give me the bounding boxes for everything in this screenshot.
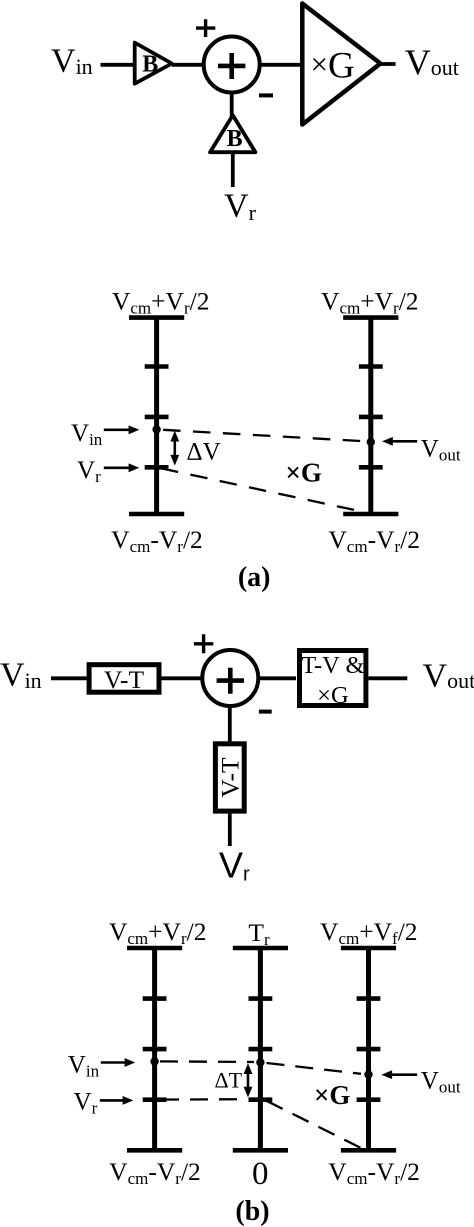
minus polarity mark <box>259 93 273 97</box>
svg-text:Vin: Vin <box>71 420 103 449</box>
svg-text:B: B <box>142 52 158 78</box>
input axis bottom cap <box>129 512 184 517</box>
buffer B2 <box>210 115 255 152</box>
node Vin dot <box>152 425 160 433</box>
svg-text:Vout: Vout <box>423 658 474 695</box>
b output axis tick 1 <box>357 996 381 1001</box>
svg-text:×G: ×G <box>317 682 349 709</box>
input axis tick 3 (Vr level) <box>145 465 169 470</box>
output axis top cap <box>343 315 398 320</box>
output axis tick 3 <box>359 465 383 470</box>
output axis tick 2 <box>359 415 383 420</box>
svg-text:Vcm-Vr/2: Vcm-Vr/2 <box>328 1157 420 1188</box>
b time axis tick 3 <box>249 1097 273 1102</box>
b time axis bottom cap <box>233 1148 288 1153</box>
svg-text:0: 0 <box>252 1156 269 1192</box>
b arrow Vr pointer <box>100 1096 134 1105</box>
b time axis tick 1 <box>249 996 273 1001</box>
svg-text:Vcm-Vr/2: Vcm-Vr/2 <box>109 1157 201 1188</box>
b output axis top cap <box>341 946 396 951</box>
wire summer to T-V box <box>258 676 296 680</box>
svg-text:Vout: Vout <box>421 1067 461 1096</box>
output axis tick 1 <box>359 364 383 369</box>
b time axis line <box>258 948 263 1150</box>
svg-text:ΔT: ΔT <box>215 1068 243 1093</box>
b input axis bottom cap <box>127 1148 182 1153</box>
b arrow Vout pointer <box>381 1070 417 1079</box>
output axis bottom cap <box>343 512 398 517</box>
b input axis tick 2 <box>143 1047 167 1052</box>
wire buffer B2 to Vr <box>231 152 235 187</box>
svg-text:B: B <box>227 126 243 152</box>
svg-text:Vcm+Vr/2: Vcm+Vr/2 <box>112 287 210 318</box>
svg-text:ΔV: ΔV <box>187 439 221 466</box>
summing junction U2 <box>202 650 258 706</box>
plus sign inside summer <box>218 53 245 79</box>
plus sign inside summer b <box>217 668 244 694</box>
converter box T-V and xG <box>300 651 366 710</box>
svg-text:Vr: Vr <box>219 845 250 886</box>
svg-text:Vin: Vin <box>0 657 42 694</box>
input axis tick 1 <box>145 364 169 369</box>
wire summer down to vertical V-T box <box>228 706 232 742</box>
svg-text:Vcm-Vr/2: Vcm-Vr/2 <box>111 525 203 556</box>
wire summer to amplifier <box>260 63 302 67</box>
svg-text:Vr: Vr <box>77 457 101 486</box>
arrow Vr pointer <box>104 463 140 472</box>
arrow Vin pointer <box>104 425 140 434</box>
b node Vout dot <box>364 1070 372 1078</box>
svg-text:Vin: Vin <box>68 1052 100 1081</box>
wire summer to buffer B2 <box>230 93 234 118</box>
svg-text:Vcm+Vr/2: Vcm+Vr/2 <box>109 917 207 948</box>
wire Vin to V-T box <box>51 676 88 680</box>
b time axis tick 2 <box>249 1047 273 1052</box>
b node T dot <box>256 1058 264 1066</box>
svg-text:V-T: V-T <box>104 665 145 694</box>
wire Vin to buffer B1 <box>101 63 137 67</box>
converter box V-T reference (vertical) <box>215 744 244 811</box>
converter box V-T input <box>89 665 159 694</box>
output axis line <box>368 318 373 514</box>
svg-text:Vin: Vin <box>51 43 93 80</box>
svg-text:Vout: Vout <box>421 436 461 465</box>
b time axis top cap <box>233 946 288 951</box>
dashed mapping line Vr to bottom <box>161 468 366 512</box>
amplifier xG <box>302 4 380 125</box>
node Vout dot <box>367 438 375 446</box>
svg-text:×G: ×G <box>314 1080 350 1110</box>
svg-text:Vcm-Vr/2: Vcm-Vr/2 <box>328 525 420 556</box>
plus polarity mark b <box>194 634 213 653</box>
arrow Vout pointer <box>382 437 417 446</box>
svg-text:Tr: Tr <box>248 918 270 949</box>
summing junction U1 <box>204 37 260 93</box>
b input axis tick 3 (Vr level) <box>143 1097 167 1102</box>
svg-text:Vr: Vr <box>74 1089 98 1118</box>
dashed mapping line Vin to Vout <box>163 430 365 442</box>
svg-text:Vout: Vout <box>405 42 459 82</box>
b arrow Vin pointer <box>101 1058 136 1067</box>
b dashed line T to Vout <box>267 1063 362 1074</box>
wire V-T box to summer <box>162 676 205 680</box>
wire amplifier to Vout <box>380 62 395 66</box>
b dashed line Vr to T tick <box>161 1098 246 1101</box>
wire T-V box to Vout <box>368 676 407 680</box>
b output axis tick 3 <box>357 1097 381 1102</box>
svg-text:(a): (a) <box>238 562 271 593</box>
svg-text:(b): (b) <box>235 1196 269 1227</box>
svg-text:V-T: V-T <box>215 757 244 798</box>
svg-text:T-V &: T-V & <box>301 652 364 679</box>
input axis line <box>154 318 159 514</box>
b input axis line <box>152 948 157 1150</box>
wire vertical box to Vr <box>228 814 232 846</box>
buffer B1 <box>135 43 172 84</box>
input axis top cap <box>129 315 184 320</box>
svg-text:×G: ×G <box>286 458 322 488</box>
svg-text:×G: ×G <box>311 46 355 87</box>
b input axis tick 1 <box>143 996 167 1001</box>
b input axis top cap <box>127 946 182 951</box>
plus polarity mark <box>196 19 215 37</box>
b dashed line Vin to T <box>160 1060 254 1063</box>
b output axis line <box>366 948 371 1150</box>
svg-text:Vr: Vr <box>224 188 257 226</box>
input axis tick 2 <box>145 415 169 420</box>
b output axis bottom cap <box>341 1148 396 1153</box>
wire buffer B1 to summer <box>172 63 205 67</box>
svg-text:Vcm+Vf/2: Vcm+Vf/2 <box>320 917 418 948</box>
b output axis tick 2 <box>357 1047 381 1052</box>
arrow deltaV double <box>170 431 179 466</box>
b dashed line T tick to bottom <box>267 1101 363 1149</box>
minus polarity mark b <box>259 710 272 714</box>
svg-text:Vcm+Vr/2: Vcm+Vr/2 <box>321 287 419 318</box>
b arrow deltaT double <box>244 1063 253 1097</box>
b node Vin dot <box>150 1057 158 1065</box>
